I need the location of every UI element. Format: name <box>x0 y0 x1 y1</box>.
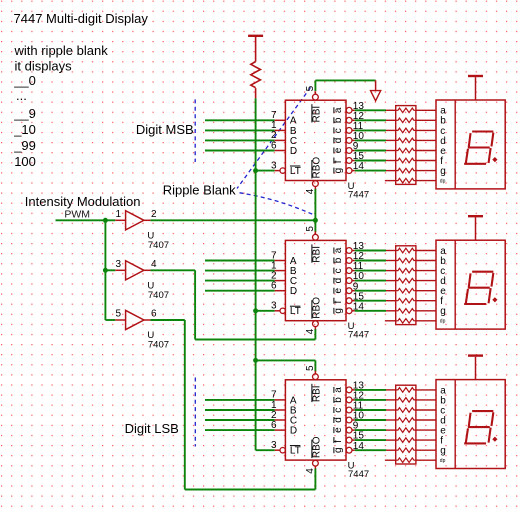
svg-text:f: f <box>333 301 344 304</box>
wire buffer2 output horizontal <box>150 269 195 271</box>
svg-text:LT: LT <box>290 166 301 177</box>
pin d bubble (Digit mid) <box>346 278 352 284</box>
wire pack to display row 7 (Digit mid) <box>416 310 436 312</box>
pin resistor-pack input a (Digit mid) <box>386 250 396 252</box>
resistor pack RN2 body <box>396 246 416 325</box>
pin B stub (Digit LSB) <box>275 409 286 411</box>
pin C stub (Digit LSB) <box>275 419 286 421</box>
wire buffer2 input stub <box>105 269 115 271</box>
resistor RN1 element 1 <box>396 108 416 113</box>
pin a bubble (Digit mid) <box>346 248 352 254</box>
pin resistor-pack dp input stub (Digit LSB) <box>385 459 396 461</box>
wire PWM input horizontal <box>56 219 116 221</box>
wire segment b to resistor (Digit mid) <box>355 260 386 262</box>
svg-text:g: g <box>440 306 446 317</box>
wire pack to display row 4 (Digit LSB) <box>416 419 436 421</box>
svg-text:__0: __0 <box>13 73 36 88</box>
wire buffer2 net vertical <box>194 270 196 339</box>
pin RBI stub (Digit mid) <box>314 231 316 234</box>
segment c (DIS2) <box>489 289 491 302</box>
svg-text:f: f <box>333 440 344 443</box>
wire buffer2 net to RBO2 <box>195 339 315 341</box>
wire pack to display row 5 (Digit MSB) <box>416 150 436 152</box>
svg-text:dp: dp <box>440 178 446 184</box>
resistor RN1 element 2 <box>396 118 416 123</box>
pin resistor-pack input a (Digit MSB) <box>386 109 396 111</box>
buffer U1 output stub <box>144 219 151 221</box>
wire segment b to resistor (Digit MSB) <box>355 119 386 121</box>
pin resistor bottom lead <box>255 88 257 98</box>
svg-text:a: a <box>333 107 344 113</box>
wire pack to display row 6 (Digit MSB) <box>416 160 436 162</box>
junction PWM/buffer2 <box>103 268 108 273</box>
ground symbol <box>371 91 381 101</box>
pin RBI bubble (Digit LSB) <box>313 374 319 380</box>
svg-text:6: 6 <box>271 420 277 431</box>
annotation dashed marker Digit MSB <box>194 99 196 162</box>
svg-text:_10: _10 <box>13 122 36 137</box>
svg-text:4: 4 <box>151 259 157 270</box>
pin resistor-pack input b (Digit mid) <box>386 260 396 262</box>
svg-text:D: D <box>290 146 297 157</box>
wire pack to display row 4 (Digit MSB) <box>416 139 436 141</box>
svg-text:RBO: RBO <box>312 436 323 458</box>
wire input B (Digit LSB) <box>205 409 275 411</box>
wire pack to display row 6 (Digit mid) <box>416 300 436 302</box>
svg-text:LT: LT <box>290 306 301 317</box>
pin d bubble (Digit MSB) <box>346 138 352 144</box>
segment dp diamond (DIS2) <box>492 297 497 302</box>
svg-text:5: 5 <box>305 365 316 371</box>
wire pack to display row 8 (Digit LSB) <box>416 459 436 461</box>
display DIS1 pin divider <box>454 100 456 189</box>
svg-text:g: g <box>440 166 446 177</box>
power VCC T-bar (DIS2) <box>468 215 483 217</box>
segment dp diamond (DIS3) <box>492 437 497 442</box>
wire LT pin (Digit LSB) <box>256 449 275 451</box>
wire input C (Digit MSB) <box>205 139 275 141</box>
pin LT stub (Digit mid) <box>275 310 280 312</box>
svg-text:c: c <box>333 128 344 133</box>
wire pack to display row 8 (Digit MSB) <box>416 180 436 182</box>
op-amp buffer U2 7407 triangle <box>126 261 144 280</box>
svg-text:c: c <box>333 268 344 273</box>
pin LT stub (Digit MSB) <box>275 170 280 172</box>
wire buffer3 net vertical <box>184 320 186 490</box>
op-amp IC U 7447 (Digit MSB) body <box>285 100 346 180</box>
op-amp IC U 7447 (Digit mid) body <box>285 240 346 320</box>
pin resistor-pack input f (Digit MSB) <box>386 160 396 162</box>
pin resistor-pack input b (Digit MSB) <box>386 119 396 121</box>
wire buffer1 output to RBO1 net <box>150 219 315 221</box>
svg-text:3: 3 <box>115 259 121 270</box>
svg-text:4: 4 <box>305 188 316 194</box>
svg-text:...: ... <box>16 88 27 103</box>
wire pack to display row 7 (Digit MSB) <box>416 170 436 172</box>
junction RBO1/RBI2/PWM1 <box>313 218 318 223</box>
wire input D (Digit mid) <box>205 290 275 292</box>
svg-text:g: g <box>333 168 344 174</box>
wire pack to display row 5 (Digit mid) <box>416 290 436 292</box>
op-amp buffer U3 7407 triangle <box>126 310 144 329</box>
pin RBO bubble (Digit MSB) <box>313 181 319 187</box>
svg-text:it displays: it displays <box>15 58 73 73</box>
wire PWM vertical to buffers <box>104 220 106 320</box>
pin b bubble (Digit MSB) <box>346 117 352 123</box>
wire segment c to resistor (Digit MSB) <box>355 129 386 131</box>
pin b stub (Digit LSB) <box>352 399 355 401</box>
svg-text:6: 6 <box>271 281 277 292</box>
segment a (DIS3) <box>473 410 492 412</box>
transistor-buffer U2 7407 input stub <box>115 269 125 271</box>
pin f stub (Digit MSB) <box>352 160 355 162</box>
segment c (DIS1) <box>489 149 491 162</box>
wire input D (Digit LSB) <box>205 429 275 431</box>
pin e stub (Digit mid) <box>352 290 355 292</box>
resistor RN3 element 2 <box>396 398 416 403</box>
svg-text:g: g <box>440 446 446 457</box>
power VCC T-bar (DIS3) <box>468 354 483 356</box>
wire segment c to resistor (Digit mid) <box>355 270 386 272</box>
wire input B (Digit MSB) <box>205 129 275 131</box>
pin e stub (Digit MSB) <box>352 150 355 152</box>
wire pack to display row 1 (Digit MSB) <box>416 109 436 111</box>
pin resistor-pack input d (Digit MSB) <box>386 139 396 141</box>
buffer U2 output stub <box>144 269 151 271</box>
svg-text:d: d <box>333 278 344 284</box>
segment g (DIS1) <box>469 146 489 148</box>
pin d stub (Digit LSB) <box>352 419 355 421</box>
pin resistor-pack input g (Digit LSB) <box>386 449 396 451</box>
pin RBO stub (Digit MSB) <box>314 187 316 190</box>
wire segment g to resistor (Digit MSB) <box>355 170 386 172</box>
segment e (DIS2) <box>466 290 468 303</box>
wire pack to display row 2 (Digit MSB) <box>416 119 436 121</box>
junction pullup/LT1 <box>253 168 258 173</box>
pin RBI bubble (Digit mid) <box>313 234 319 240</box>
annotation dashed leader to RBI pin <box>237 88 311 189</box>
wire input A (Digit mid) <box>205 260 275 262</box>
svg-text:a: a <box>333 387 344 393</box>
junction PWM/buffer1 <box>103 218 108 223</box>
resistor RN3 element 3 <box>396 408 416 413</box>
pin resistor-pack input a (Digit LSB) <box>386 389 396 391</box>
pin f bubble (Digit LSB) <box>346 437 352 443</box>
wire pack to display row 6 (Digit LSB) <box>416 439 436 441</box>
wire pack to display row 2 (Digit LSB) <box>416 399 436 401</box>
resistor pack RN1 body <box>396 106 416 185</box>
wire buffer3 output horizontal <box>150 319 184 321</box>
pin g bubble (Digit MSB) <box>346 168 352 174</box>
power VCC T-bar (DIS1) <box>468 75 483 77</box>
pin C stub (Digit mid) <box>275 280 286 282</box>
svg-text:b: b <box>333 257 344 263</box>
segment e (DIS1) <box>466 150 468 163</box>
pin g stub (Digit mid) <box>352 310 355 312</box>
resistor RN2 element 1 <box>396 248 416 253</box>
svg-text:c: c <box>333 408 344 413</box>
pin resistor-pack input f (Digit mid) <box>386 300 396 302</box>
pin b bubble (Digit mid) <box>346 258 352 264</box>
pin resistor-pack input d (Digit LSB) <box>386 419 396 421</box>
op-amp buffer U1 7407 triangle <box>126 211 144 230</box>
pin a stub (Digit MSB) <box>352 109 355 111</box>
resistor RN3 element 7 <box>396 448 416 453</box>
segment f (DIS1) <box>469 134 471 146</box>
svg-text:5: 5 <box>115 309 121 320</box>
pin c stub (Digit MSB) <box>352 129 355 131</box>
resistor RN3 element 1 <box>396 388 416 393</box>
pin c stub (Digit LSB) <box>352 409 355 411</box>
pin resistor-pack input e (Digit mid) <box>386 290 396 292</box>
svg-text:7407: 7407 <box>148 240 169 251</box>
wire pack to display row 8 (Digit mid) <box>416 320 436 322</box>
wire RBO1 to RBI2 <box>314 189 316 232</box>
pin resistor-pack input c (Digit LSB) <box>386 409 396 411</box>
svg-text:__9: __9 <box>13 106 36 121</box>
wire input D (Digit MSB) <box>205 150 275 152</box>
wire segment e to resistor (Digit mid) <box>355 290 386 292</box>
annotation dashed leader to ripple-blank net <box>240 193 314 215</box>
wire segment e to resistor (Digit LSB) <box>355 429 386 431</box>
7-segment display DIS2 body <box>436 240 505 329</box>
pin LT bubble (Digit mid) <box>280 308 285 313</box>
pin c stub (Digit mid) <box>352 270 355 272</box>
pin A stub (Digit LSB) <box>275 399 286 401</box>
wire LT pin (Digit mid) <box>256 310 275 312</box>
wire segment g to resistor (Digit mid) <box>355 310 386 312</box>
pin ground stub <box>375 80 377 90</box>
wire RBI3 vertical <box>314 360 316 371</box>
pin f stub (Digit LSB) <box>352 439 355 441</box>
wire RBI1 to ground <box>315 79 375 81</box>
segment f (DIS3) <box>469 414 471 426</box>
pin LT stub (Digit LSB) <box>275 449 280 451</box>
wire segment d to resistor (Digit mid) <box>355 280 386 282</box>
svg-text:e: e <box>333 147 344 153</box>
svg-text:b: b <box>333 397 344 403</box>
svg-text:6: 6 <box>271 140 277 151</box>
svg-text:LT: LT <box>290 446 301 457</box>
svg-text:e: e <box>333 288 344 294</box>
segment dp diamond (DIS1) <box>492 157 497 162</box>
pin LT bubble (Digit MSB) <box>280 168 285 173</box>
pin D stub (Digit MSB) <box>275 150 286 152</box>
svg-text:d: d <box>333 138 344 144</box>
svg-text:dp: dp <box>440 458 446 464</box>
segment g (DIS3) <box>469 426 489 428</box>
svg-text:6: 6 <box>151 309 157 320</box>
resistor RN1 element 6 <box>396 158 416 163</box>
wire pack to display row 1 (Digit LSB) <box>416 389 436 391</box>
wire pack to display row 7 (Digit LSB) <box>416 449 436 451</box>
pin C stub (Digit MSB) <box>275 139 286 141</box>
pin d stub (Digit mid) <box>352 280 355 282</box>
pin resistor-pack input d (Digit mid) <box>386 280 396 282</box>
svg-text:7407: 7407 <box>148 290 169 301</box>
wire VCC to resistor <box>255 37 257 62</box>
resistor RN1 element 8 <box>396 178 416 183</box>
resistor R1 (LT/RBI pullup) <box>251 62 261 88</box>
segment d (DIS1) <box>465 163 485 165</box>
pin b stub (Digit MSB) <box>352 119 355 121</box>
wire input C (Digit LSB) <box>205 419 275 421</box>
resistor RN2 element 8 <box>396 319 416 324</box>
7-segment display DIS3 body <box>436 380 505 469</box>
pin display common anode (DIS2) <box>475 217 477 240</box>
resistor RN3 element 6 <box>396 438 416 443</box>
pin g stub (Digit LSB) <box>352 449 355 451</box>
wire segment d to resistor (Digit LSB) <box>355 419 386 421</box>
power VCC T-bar (pullup) <box>248 35 263 37</box>
pin e bubble (Digit MSB) <box>346 148 352 154</box>
pin a bubble (Digit MSB) <box>346 107 352 113</box>
resistor RN2 element 6 <box>396 298 416 303</box>
pin D stub (Digit mid) <box>275 290 286 292</box>
segment b (DIS3) <box>492 413 494 425</box>
pin A stub (Digit mid) <box>275 260 286 262</box>
resistor RN3 element 5 <box>396 428 416 433</box>
wire segment f to resistor (Digit mid) <box>355 300 386 302</box>
svg-text:dp: dp <box>440 319 446 325</box>
resistor RN1 element 4 <box>396 138 416 143</box>
svg-text:RBI: RBI <box>312 106 323 123</box>
wire buffer3 input stub <box>105 319 115 321</box>
pin display common anode (DIS3) <box>475 357 477 380</box>
wire segment a to resistor (Digit mid) <box>355 250 386 252</box>
pin resistor-pack input e (Digit LSB) <box>386 429 396 431</box>
wire LT pin (Digit MSB) <box>256 170 275 172</box>
svg-text:f: f <box>333 160 344 163</box>
pin RBO stub (Digit LSB) <box>314 466 316 469</box>
segment e (DIS3) <box>466 429 468 442</box>
resistor pack RN3 body <box>396 385 416 464</box>
transistor-buffer U3 7407 input stub <box>115 319 125 321</box>
wire segment f to resistor (Digit MSB) <box>355 160 386 162</box>
pin RBO stub (Digit mid) <box>314 327 316 330</box>
svg-text:Digit LSB: Digit LSB <box>125 421 179 436</box>
pin resistor-pack input c (Digit MSB) <box>386 129 396 131</box>
wire segment d to resistor (Digit MSB) <box>355 139 386 141</box>
pin g bubble (Digit mid) <box>346 308 352 314</box>
pin f bubble (Digit mid) <box>346 298 352 304</box>
pin resistor-pack dp input stub (Digit MSB) <box>385 180 396 182</box>
segment b (DIS2) <box>492 274 494 286</box>
svg-text:D: D <box>290 426 297 437</box>
svg-text:3: 3 <box>271 301 277 312</box>
svg-text:5: 5 <box>305 226 316 232</box>
wire segment a to resistor (Digit MSB) <box>355 109 386 111</box>
svg-text:7447: 7447 <box>348 330 369 341</box>
pin f stub (Digit mid) <box>352 300 355 302</box>
7-segment display DIS1 body <box>436 100 505 189</box>
pin d stub (Digit MSB) <box>352 139 355 141</box>
svg-text:b: b <box>333 117 344 123</box>
svg-text:a: a <box>333 247 344 253</box>
pin c bubble (Digit MSB) <box>346 127 352 133</box>
buffer U3 output stub <box>144 319 151 321</box>
svg-text:g: g <box>333 447 344 453</box>
wire segment f to resistor (Digit LSB) <box>355 439 386 441</box>
pin a stub (Digit mid) <box>352 250 355 252</box>
segment b (DIS1) <box>492 134 494 146</box>
segment f (DIS2) <box>469 274 471 286</box>
pin resistor-pack dp input stub (Digit mid) <box>385 320 396 322</box>
svg-text:1: 1 <box>115 209 121 220</box>
svg-text:PWM: PWM <box>64 209 90 221</box>
wire RBI3 horizontal from pullup <box>256 359 316 361</box>
pin resistor-pack input c (Digit mid) <box>386 270 396 272</box>
svg-text:2: 2 <box>151 209 157 220</box>
segment a (DIS1) <box>473 130 492 132</box>
wire segment a to resistor (Digit LSB) <box>355 389 386 391</box>
resistor RN2 element 7 <box>396 309 416 314</box>
wire buffer3 net bottom horizontal <box>185 489 316 491</box>
display DIS2 pin divider <box>454 240 456 329</box>
pin RBI stub (Digit MSB) <box>314 91 316 94</box>
pin resistor-pack input g (Digit MSB) <box>386 170 396 172</box>
wire input C (Digit mid) <box>205 280 275 282</box>
segment d (DIS3) <box>465 442 485 444</box>
pin B stub (Digit MSB) <box>275 129 286 131</box>
wire input A (Digit LSB) <box>205 399 275 401</box>
svg-text:7447 Multi-digit Display: 7447 Multi-digit Display <box>14 11 149 26</box>
svg-text:4: 4 <box>305 328 316 334</box>
wire segment b to resistor (Digit LSB) <box>355 399 386 401</box>
resistor RN2 element 3 <box>396 268 416 273</box>
transistor-buffer U1 7407 input stub <box>115 219 125 221</box>
svg-text:5: 5 <box>305 85 316 91</box>
svg-text:7407: 7407 <box>148 340 169 351</box>
pin e stub (Digit LSB) <box>352 429 355 431</box>
segment d (DIS2) <box>465 303 485 305</box>
pin d bubble (Digit LSB) <box>346 417 352 423</box>
resistor RN2 element 5 <box>396 288 416 293</box>
svg-text:RBI: RBI <box>312 246 323 263</box>
op-amp IC U 7447 (Digit LSB) body <box>285 380 346 460</box>
segment g (DIS2) <box>469 287 489 289</box>
pin resistor-pack input f (Digit LSB) <box>386 439 396 441</box>
wire segment c to resistor (Digit LSB) <box>355 409 386 411</box>
resistor RN1 element 5 <box>396 148 416 153</box>
wire pack to display row 5 (Digit LSB) <box>416 429 436 431</box>
wire input A (Digit MSB) <box>205 119 275 121</box>
pin c bubble (Digit mid) <box>346 268 352 274</box>
resistor RN2 element 4 <box>396 278 416 283</box>
wire segment e to resistor (Digit MSB) <box>355 150 386 152</box>
pin B stub (Digit mid) <box>275 270 286 272</box>
svg-text:3: 3 <box>271 440 277 451</box>
resistor RN3 element 8 <box>396 458 416 463</box>
pin b bubble (Digit LSB) <box>346 397 352 403</box>
pin RBI bubble (Digit MSB) <box>313 94 319 100</box>
wire input B (Digit mid) <box>205 270 275 272</box>
pin RBO bubble (Digit mid) <box>313 321 319 327</box>
svg-text:with ripple blank: with ripple blank <box>14 43 109 58</box>
svg-text:RBO: RBO <box>312 157 323 179</box>
wire pullup net vertical (LT chain) <box>255 98 257 450</box>
pin A stub (Digit MSB) <box>275 119 286 121</box>
junction pullup/RBI3 <box>253 358 258 363</box>
pin b stub (Digit mid) <box>352 260 355 262</box>
display DIS3 pin divider <box>454 380 456 469</box>
pin resistor-pack input b (Digit LSB) <box>386 399 396 401</box>
pin RBO bubble (Digit LSB) <box>313 460 319 466</box>
wire pack to display row 3 (Digit LSB) <box>416 409 436 411</box>
pin RBI stub (Digit LSB) <box>314 371 316 374</box>
wire pack to display row 2 (Digit mid) <box>416 260 436 262</box>
pin D stub (Digit LSB) <box>275 429 286 431</box>
